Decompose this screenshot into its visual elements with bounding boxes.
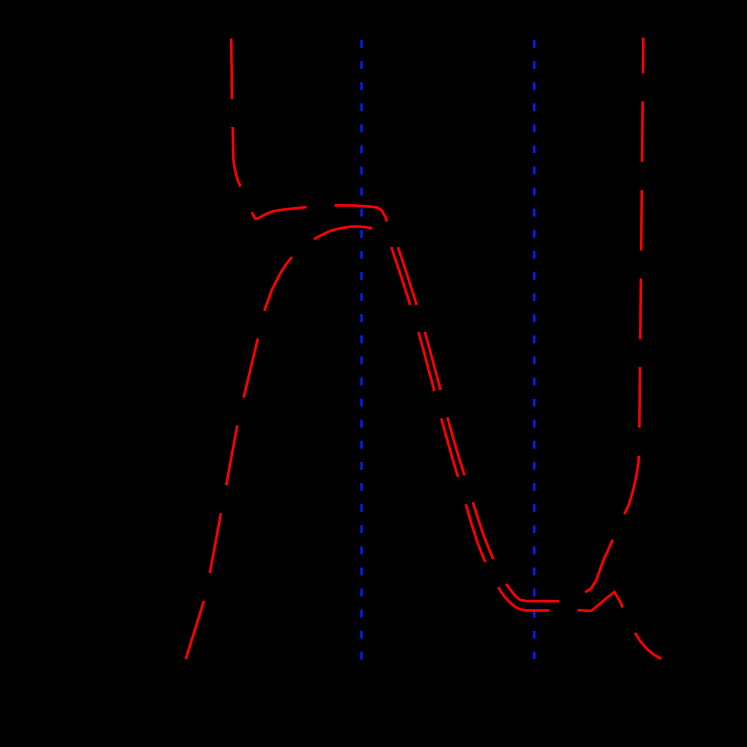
red lower confidence band curve B — [186, 226, 662, 659]
blue vline 1 (knot marker) — [360, 40, 362, 661]
red upper confidence band curve A — [231, 38, 643, 602]
blue vline 2 (knot marker) — [533, 40, 535, 659]
